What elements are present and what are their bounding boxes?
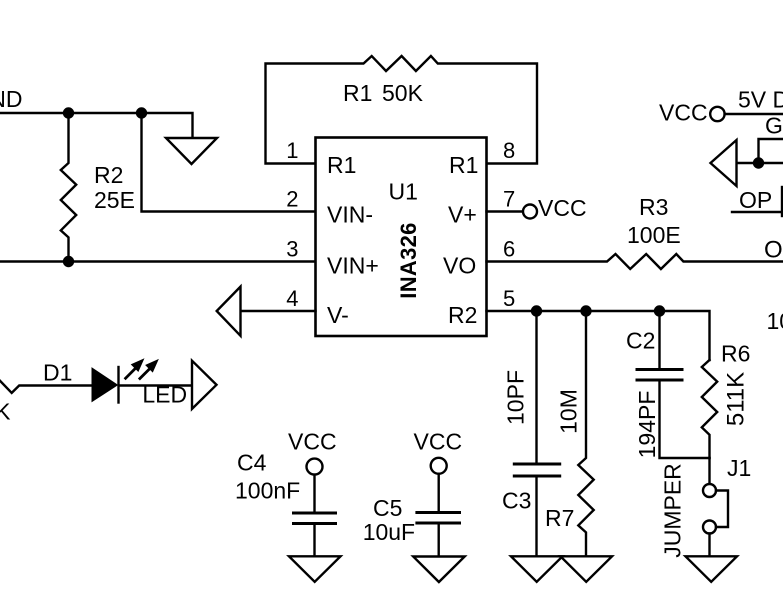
svg-text:V+: V+ [448, 202, 477, 228]
svg-text:R2: R2 [448, 302, 477, 328]
svg-text:8: 8 [503, 138, 515, 163]
svg-text:50K: 50K [382, 80, 424, 106]
svg-text:GND: GND [0, 86, 23, 112]
svg-text:VIN-: VIN- [327, 202, 373, 228]
svg-text:U1: U1 [389, 179, 418, 205]
svg-text:10: 10 [767, 308, 783, 334]
svg-text:OP: OP [764, 237, 783, 264]
svg-text:5V DC: 5V DC [738, 87, 783, 113]
svg-text:LED: LED [142, 381, 187, 407]
svg-text:4: 4 [286, 286, 298, 311]
svg-text:INA326: INA326 [396, 222, 421, 298]
svg-text:10PF: 10PF [503, 370, 529, 425]
svg-text:OP: OP [739, 187, 772, 213]
svg-text:C2: C2 [626, 328, 655, 354]
svg-text:10uF: 10uF [363, 519, 415, 545]
svg-text:R1: R1 [449, 152, 478, 178]
svg-text:100E: 100E [627, 222, 681, 248]
svg-text:194PF: 194PF [634, 391, 660, 459]
svg-text:V-: V- [327, 302, 349, 328]
svg-text:JUMPER: JUMPER [660, 463, 686, 558]
svg-text:25E: 25E [94, 187, 135, 213]
svg-text:VO: VO [443, 253, 476, 279]
svg-text:VCC: VCC [538, 195, 587, 221]
svg-text:R2: R2 [94, 162, 123, 188]
svg-text:C4: C4 [237, 450, 267, 476]
svg-text:3: 3 [286, 237, 298, 262]
svg-text:2: 2 [286, 187, 298, 212]
svg-text:1: 1 [286, 138, 298, 163]
svg-text:D1: D1 [43, 360, 72, 386]
svg-text:VCC: VCC [659, 100, 708, 126]
svg-text:5: 5 [503, 286, 515, 311]
svg-text:C5: C5 [373, 495, 402, 521]
svg-text:7: 7 [503, 187, 515, 212]
svg-text:R1: R1 [343, 80, 372, 106]
svg-text:VIN+: VIN+ [327, 253, 379, 279]
svg-text:VCC: VCC [288, 429, 337, 455]
svg-text:J1: J1 [727, 455, 751, 481]
svg-text:R1: R1 [327, 152, 356, 178]
svg-text:511K: 511K [723, 372, 750, 426]
svg-text:100nF: 100nF [235, 478, 300, 504]
svg-text:R7: R7 [545, 505, 574, 531]
svg-text:C3: C3 [502, 488, 531, 514]
svg-text:1K: 1K [0, 399, 11, 425]
svg-text:GND: GND [765, 113, 783, 139]
svg-text:R6: R6 [721, 341, 750, 367]
svg-text:6: 6 [503, 237, 515, 262]
svg-text:10M: 10M [556, 389, 582, 434]
svg-text:VCC: VCC [414, 429, 463, 455]
svg-text:R3: R3 [639, 194, 668, 220]
